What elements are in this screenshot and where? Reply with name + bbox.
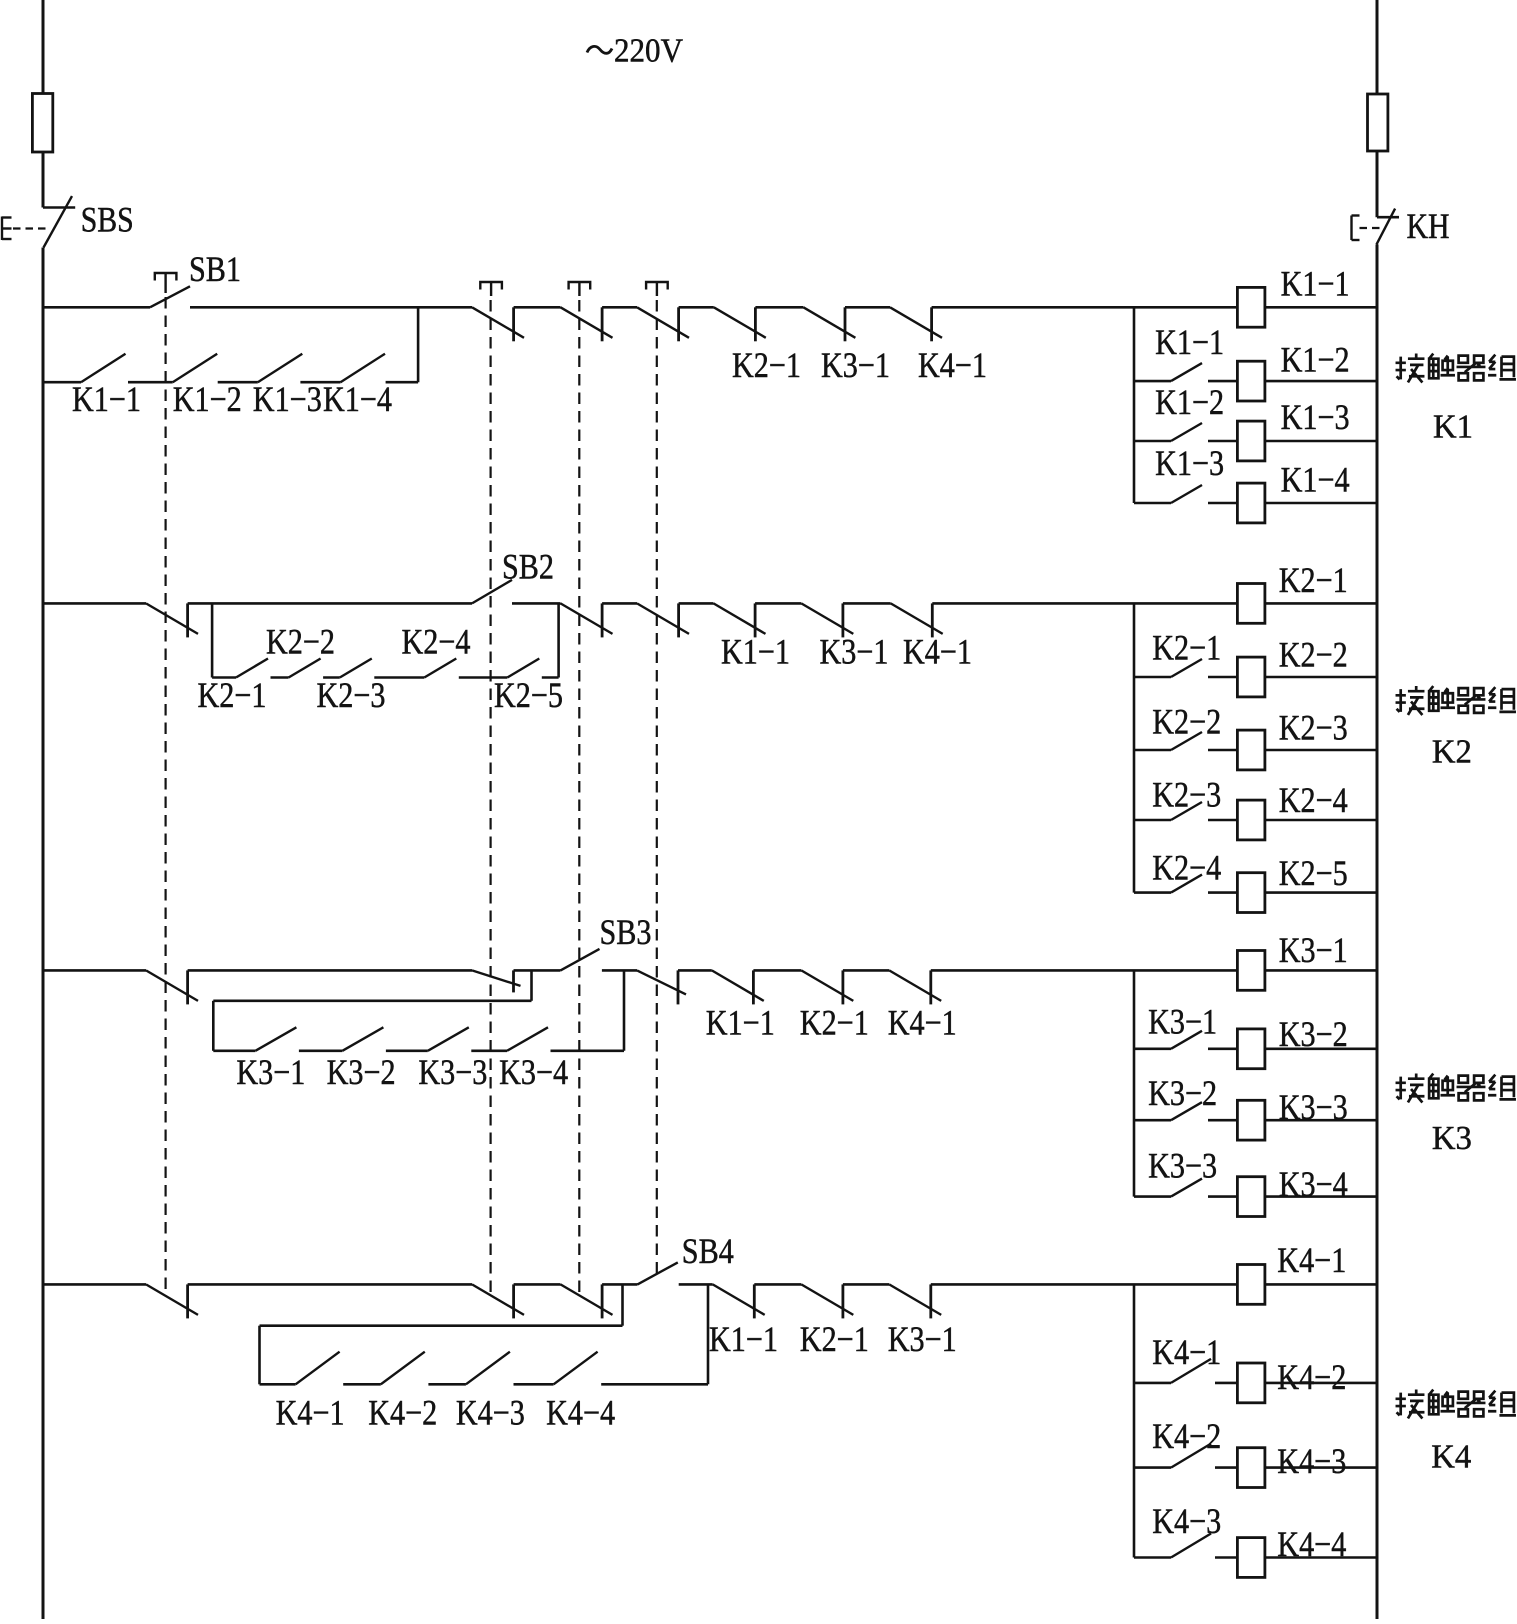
branch3 jog horizontal [213,999,531,1002]
wire rung4: SB2-NC to SB3-NC [514,1283,561,1286]
wire K4 group row to contact K4-1 [1134,1382,1171,1385]
wire K2 group row to contact K2-3 [1134,819,1171,822]
svg-text:K1−1: K1−1 [72,379,141,419]
group label contactor-group (K3) [1396,1074,1425,1103]
wire to coil K2-5 [1208,891,1237,894]
SBS actuator symbol (cropped at edge) [1,217,3,241]
auxiliary contact K4-2 (NO) [1171,1444,1211,1468]
svg-text:K2−2: K2−2 [1152,702,1221,742]
start button SB4 (NO) in rung4 [638,1262,678,1284]
svg-text:K3−1: K3−1 [236,1052,305,1092]
wire coil K2-3 to right rail [1265,749,1377,752]
svg-text:K4−1: K4−1 [1277,1240,1346,1280]
NC contact of SB4 in rung3 [637,970,686,994]
svg-text:K2−3: K2−3 [317,675,386,715]
svg-text:K4−1: K4−1 [918,345,987,385]
wire to coil K4-3 [1215,1466,1237,1469]
wire rung1: SB3-NC to SB4-NC [602,306,637,309]
self-hold contact K2-1 (NO) in branch2 [236,659,268,678]
svg-text:K4−1: K4−1 [888,1003,957,1043]
wire to coil K3-3 [1208,1119,1237,1122]
coil K3-2 [1237,1029,1265,1069]
start button SB1 (NO) [150,286,190,307]
wire rung3: SB3 to SB4-NC [602,969,637,972]
wire rung2: K4-1 to coil K2-1 [932,602,1237,605]
coil K4-2 [1237,1363,1265,1403]
wire rung2: SB4-NC to K1-1 [679,602,714,605]
start button SB2 (NO) in rung2 [472,580,512,604]
svg-text:K2−2: K2−2 [266,622,335,662]
svg-text:K2−2: K2−2 [1279,635,1348,675]
SB1 button cap [155,273,177,281]
svg-text:K2−5: K2−5 [1279,853,1348,893]
wire rung4: coil K4-1 to right rail [1265,1283,1377,1286]
wire branch4 segment [343,1383,381,1386]
wire branch4 segment [428,1383,466,1386]
thermal overload contact KH (NC) on right rail [1377,216,1399,219]
svg-text:K4−2: K4−2 [1152,1416,1221,1456]
group label contactor-group (K4) [1396,1390,1425,1419]
wire K1 group row to contact K1-1 [1134,380,1171,383]
wire rung2: rail to SB1-NC [43,602,146,605]
svg-text:K1−2: K1−2 [1155,382,1224,422]
wire rung3: coil K3-1 to right rail [1265,969,1377,972]
wire branch1 segment to riser [386,381,419,384]
wire rung3: rail to SB1-NC [43,969,146,972]
auxiliary contact K3-3 (NO) [1171,1179,1202,1197]
wire coil K2-5 to right rail [1265,891,1377,894]
svg-text:K3−1: K3−1 [821,345,890,385]
coil K1-3 [1237,421,1265,461]
fuse FU2 (right rail) [1368,94,1388,151]
wire branch2 segment [542,676,559,679]
wire branch1 segment [218,381,258,384]
wire to coil K1-2 [1208,380,1237,383]
NC contact of SB3 in rung4 [561,1284,613,1315]
interlock contact K2-1 (NC) in rung3 [801,970,853,1001]
coil K4-4 [1237,1538,1265,1578]
wire to coil K1-3 [1208,440,1237,443]
wire rung2: K1-1 to K3-1 [755,602,801,605]
wire rung3: SB2-NC to SB3 [514,969,561,972]
NC contact of SB4 in rung1 [637,307,689,338]
branch1 riser to rung1 [417,307,420,382]
interlock contact K3-1 (NC) in rung1 [803,307,855,338]
coil K3-1 [1237,951,1265,991]
coil K1-4 [1237,483,1265,523]
wire coil K1-3 to right rail [1265,440,1377,443]
svg-text:K2−1: K2−1 [1152,628,1221,668]
wire to coil K3-2 [1208,1048,1237,1051]
mechanical linkage of SB4 (dashed) [656,300,658,1273]
svg-text:K4−3: K4−3 [456,1393,525,1433]
svg-text:K3−3: K3−3 [1148,1146,1217,1186]
svg-text:K1−1: K1−1 [1155,322,1224,362]
svg-text:K1−3: K1−3 [1281,397,1350,437]
auxiliary contact K1-2 (NO) [1171,423,1202,441]
junction riser K3 group [1133,970,1136,1196]
auxiliary contact K2-2 (NO) [1171,732,1202,750]
svg-text:220V: 220V [614,33,683,70]
wire rung3: K4-1 to coil K3-1 [931,969,1238,972]
svg-text:K4−3: K4−3 [1277,1441,1346,1481]
coil K2-3 [1237,730,1265,770]
junction riser K2 group [1133,603,1136,892]
self-hold contact K3-2 (NO) in branch3 [342,1027,383,1051]
coil K4-3 [1237,1448,1265,1488]
SB4 button cap (rung1) [646,282,668,290]
wire branch3 segment [471,1050,507,1053]
wire coil K4-3 to right rail [1265,1466,1377,1469]
wire rung2: coil K2-1 to right rail [1265,602,1377,605]
NC contact of SB1 in rung2 [146,603,198,634]
wire rung4: K1-1 to K2-1 [754,1283,801,1286]
svg-text:SB1: SB1 [189,249,241,289]
wire to coil K2-2 [1208,676,1237,679]
wire branch3 segment [551,1050,625,1053]
NC contact of SB2 in rung1 [472,307,524,338]
self-hold contact K3-3 (NO) in branch3 [428,1027,469,1051]
wire coil K1-2 to right rail [1265,380,1377,383]
mechanical linkage of SB3 (dashed) [578,300,580,1296]
svg-text:K2: K2 [1432,734,1472,771]
wire K1 group row to contact K1-3 [1134,502,1171,505]
auxiliary contact K2-4 (NO) [1171,875,1202,893]
wire branch3 segment [299,1050,343,1053]
mechanical linkage of SB1 (dashed) [165,297,167,1296]
wire to coil K3-4 [1208,1195,1237,1198]
wire coil K3-3 to right rail [1265,1119,1377,1122]
wire K2 group row to contact K2-1 [1134,676,1171,679]
svg-text:K4−1: K4−1 [903,632,972,672]
fuse FU1 (left rail) [32,94,52,153]
self-hold contact K1-4 (NO) in branch1 [341,354,386,383]
auxiliary contact K4-3 (NO) [1171,1534,1211,1558]
svg-text:K2−1: K2−1 [732,345,801,385]
wire rung4: SB1-NC to SB2-NC [188,1283,472,1286]
svg-text:K1−3: K1−3 [253,379,322,419]
svg-text:K4−4: K4−4 [546,1393,615,1433]
interlock contact K4-1 (NC) in rung3 [889,970,941,1001]
self-hold contact K2-2 (NO) in branch2 [289,659,321,678]
svg-text:SB2: SB2 [502,547,554,587]
wire coil K1-4 to right rail [1265,502,1377,505]
right supply rail (upper) [1376,0,1379,217]
svg-text:K1−1: K1−1 [706,1003,775,1043]
svg-text:K3−4: K3−4 [499,1052,568,1092]
self-hold contact K1-2 (NO) in branch1 [173,354,218,383]
svg-text:K1−4: K1−4 [323,379,392,419]
wire to coil K4-4 [1215,1556,1237,1559]
svg-text:K3−3: K3−3 [418,1052,487,1092]
wire K1 group row to contact K1-2 [1134,440,1171,443]
NC contact of SB4 in rung2 [637,603,689,634]
auxiliary contact K3-1 (NO) [1171,1031,1202,1049]
wire rung1: K4-1 to coil K1-1 [932,306,1238,309]
svg-text:K2−1: K2−1 [198,675,267,715]
branch4 rejoin riser [707,1284,710,1384]
branch3 rejoin riser [623,970,626,1050]
interlock contact K3-1 (NC) in rung4 [889,1284,941,1315]
wire branch2 segment [374,676,424,679]
interlock contact K3-1 (NC) in rung2 [801,603,853,634]
self-hold contact K2-4 (NO) in branch2 [424,659,456,678]
interlock contact K2-1 (NC) in rung4 [801,1284,853,1315]
coil K2-2 [1237,657,1265,697]
wire rung1: K3-1 to K4-1 [845,306,890,309]
wire rung1: coil K1-1 to right rail [1265,306,1377,309]
svg-text:K4−1: K4−1 [276,1393,345,1433]
mechanical linkage of SB2 (dashed) [490,300,492,1296]
svg-text:K1−1: K1−1 [1281,264,1350,304]
coil K3-4 [1237,1177,1265,1217]
branch4 jog horizontal [260,1324,623,1327]
interlock contact K2-1 (NC) in rung1 [714,307,766,338]
svg-text:K2−4: K2−4 [1152,848,1221,888]
wire rung2: SB3-NC to SB4-NC [602,602,637,605]
wire rung1: SB1 to SB2-NC [190,306,472,309]
self-hold contact K4-4 (NO) in branch4 [554,1352,598,1385]
wire rung2: SB1-NC to SB2 [188,602,472,605]
wire rung3: SB4-NC to K1-1 [678,969,712,972]
svg-text:SB3: SB3 [600,912,652,952]
svg-text:K2−1: K2−1 [1279,560,1348,600]
self-hold contact K4-1 (NO) in branch4 [296,1352,340,1385]
auxiliary contact K3-2 (NO) [1171,1102,1202,1120]
svg-text:K2−1: K2−1 [800,1319,869,1359]
auxiliary contact K1-1 (NO) [1171,363,1202,381]
SB3 button cap (rung1) [569,282,591,290]
wire coil K4-2 to right rail [1265,1382,1377,1385]
svg-text:K1−2: K1−2 [1281,340,1350,380]
wire rung3: K2-1 to K4-1 [843,969,889,972]
svg-text:K1: K1 [1433,409,1473,446]
wire coil K2-4 to right rail [1265,819,1377,822]
interlock contact K1-1 (NC) in rung4 [713,1284,765,1315]
left supply rail (lower) [42,248,45,1620]
coil K2-1 [1237,584,1265,624]
branch3 tap riser [530,970,533,1000]
self-hold contact K2-3 (NO) in branch2 [340,659,372,678]
wire branch1 segment [300,381,340,384]
wire rung1: K2-1 to K3-1 [755,306,803,309]
wire to coil K4-2 [1215,1382,1237,1385]
wire branch2 segment [271,676,289,679]
wire rung1: SB2-NC to SB3-NC [514,306,561,309]
coil K1-1 [1237,287,1265,327]
svg-text:K3−2: K3−2 [327,1052,396,1092]
coil K4-1 [1237,1265,1265,1305]
svg-text:K2−3: K2−3 [1152,775,1221,815]
svg-text:K2−4: K2−4 [402,622,471,662]
svg-text:SBS: SBS [81,200,134,240]
self-hold contact K2-5 (NO) in branch2 [507,659,539,678]
svg-text:K3−1: K3−1 [1279,930,1348,970]
wire coil K3-2 to right rail [1265,1048,1377,1051]
coil K2-4 [1237,800,1265,840]
self-hold contact K1-3 (NO) in branch1 [258,354,303,383]
wire rung2: SB2 to SB3-NC [512,602,561,605]
self-hold contact K1-1 (NO) in branch1 [81,354,126,383]
svg-text:K2−4: K2−4 [1279,780,1348,820]
svg-text:K3−4: K3−4 [1279,1164,1348,1204]
label ~220V supply [587,46,612,53]
wire branch2 row start [212,676,236,679]
wire to coil K1-4 [1208,502,1237,505]
wire branch4 row start [260,1383,296,1386]
NC contact of SB2 in rung4 [472,1284,524,1315]
interlock contact K1-1 (NC) in rung2 [714,603,766,634]
wire rung3: K1-1 to K2-1 [753,969,801,972]
start button SB3 (NO) in rung3 [561,949,600,971]
wire to coil K2-4 [1208,819,1237,822]
wire rung3: SB1-NC to SB2-NC [188,969,472,972]
wire rung4: rail to SB1-NC [43,1283,146,1286]
coil K2-5 [1237,873,1265,913]
svg-text:K4−2: K4−2 [368,1393,437,1433]
wire branch4 segment [514,1383,554,1386]
svg-text:K4−2: K4−2 [1277,1357,1346,1397]
auxiliary contact K1-3 (NO) [1171,485,1202,503]
wire K4 group row to contact K4-3 [1134,1556,1171,1559]
wire K2 group row to contact K2-2 [1134,749,1171,752]
group label contactor-group (K1) [1396,354,1425,383]
svg-text:K3−2: K3−2 [1148,1073,1217,1113]
auxiliary contact K2-1 (NO) [1171,659,1202,677]
wire rung4: SB3-NC to SB4 [602,1283,637,1286]
NC contact of SB3 in rung2 [561,603,613,634]
self-hold contact K3-4 (NO) in branch3 [507,1027,548,1051]
branch3 left leg [212,1001,215,1051]
svg-text:K2−1: K2−1 [800,1003,869,1043]
wire coil K2-2 to right rail [1265,676,1377,679]
branch2 tap riser [211,603,214,677]
auxiliary contact K4-1 (NO) [1171,1359,1211,1383]
wire branch1 segment [128,381,173,384]
wire rung2: K3-1 to K4-1 [843,602,891,605]
right supply rail (lower) [1376,244,1379,1619]
self-hold contact K3-1 (NO) in branch3 [255,1027,296,1051]
coil K1-2 [1237,361,1265,401]
svg-text:K2−5: K2−5 [494,675,563,715]
NC contact of SB1 in rung4 [146,1284,198,1315]
wire branch2 segment [323,676,340,679]
interlock contact K1-1 (NC) in rung3 [712,970,764,1001]
stop button SBS (NC) on left rail [43,206,75,209]
interlock contact K4-1 (NC) in rung2 [891,603,943,634]
wire K3 group row to contact K3-2 [1134,1119,1171,1122]
svg-text:K4−1: K4−1 [1152,1332,1221,1372]
left supply rail (upper) [42,0,45,208]
branch2 rejoin riser [557,603,560,677]
wire K3 group row to contact K3-1 [1134,1048,1171,1051]
auxiliary contact K2-3 (NO) [1171,802,1202,820]
NC contact of SB3 in rung1 [561,307,613,338]
wire to coil K2-3 [1208,749,1237,752]
wire K2 group row to contact K2-4 [1134,891,1171,894]
wire K4 group row to contact K4-2 [1134,1466,1171,1469]
wire coil K4-4 to right rail [1265,1556,1377,1559]
wire rung4: K2-1 to K3-1 [843,1283,889,1286]
NC contact of SB1 in rung3 [146,970,198,1001]
coil K3-3 [1237,1100,1265,1140]
group label contactor-group (K2) [1396,686,1425,715]
svg-text:K3: K3 [1432,1120,1472,1157]
svg-text:SB4: SB4 [682,1231,734,1271]
self-hold contact K4-3 (NO) in branch4 [466,1352,510,1385]
svg-text:K4: K4 [1431,1439,1471,1476]
wire rung4: SB4 to K1-1 [679,1283,713,1286]
wire branch2 segment [459,676,508,679]
wire rung1: SB4-NC to K2-1 interlock [679,306,714,309]
svg-text:K1−1: K1−1 [709,1319,778,1359]
KH actuator dashed link [1360,227,1387,229]
SB2 button cap (rung1) [480,282,502,290]
branch4 tap riser [621,1284,624,1325]
NC contact of SB2 in rung3 [472,970,521,986]
svg-text:K1−1: K1−1 [721,632,790,672]
svg-text:KH: KH [1407,206,1450,246]
KH actuator symbol [1350,216,1352,241]
wire branch1: from left rail [43,381,81,384]
wire coil K3-4 to right rail [1265,1195,1377,1198]
wire branch3 segment [386,1050,428,1053]
self-hold contact K4-2 (NO) in branch4 [381,1352,425,1385]
wire rung1: rail to SB1 [43,306,150,309]
SBS actuator dashed link [13,227,46,229]
svg-text:K4−3: K4−3 [1152,1501,1221,1541]
wire rung4: K3-1 to coil K4-1 [931,1283,1238,1286]
svg-text:K1−2: K1−2 [173,379,242,419]
svg-text:K3−1: K3−1 [888,1319,957,1359]
wire K3 group row to contact K3-3 [1134,1195,1171,1198]
branch4 left leg [258,1326,261,1385]
interlock contact K4-1 (NC) in rung1 [890,307,942,338]
svg-text:K1−3: K1−3 [1155,443,1224,483]
svg-text:K2−3: K2−3 [1279,708,1348,748]
svg-text:K3−1: K3−1 [1148,1002,1217,1042]
svg-text:K1−4: K1−4 [1281,460,1350,500]
junction riser K4 group [1133,1284,1136,1557]
svg-text:K3−1: K3−1 [820,632,889,672]
wire branch3 row start [213,1050,255,1053]
wire branch4 segment [601,1383,708,1386]
junction riser K1 group [1133,307,1136,503]
